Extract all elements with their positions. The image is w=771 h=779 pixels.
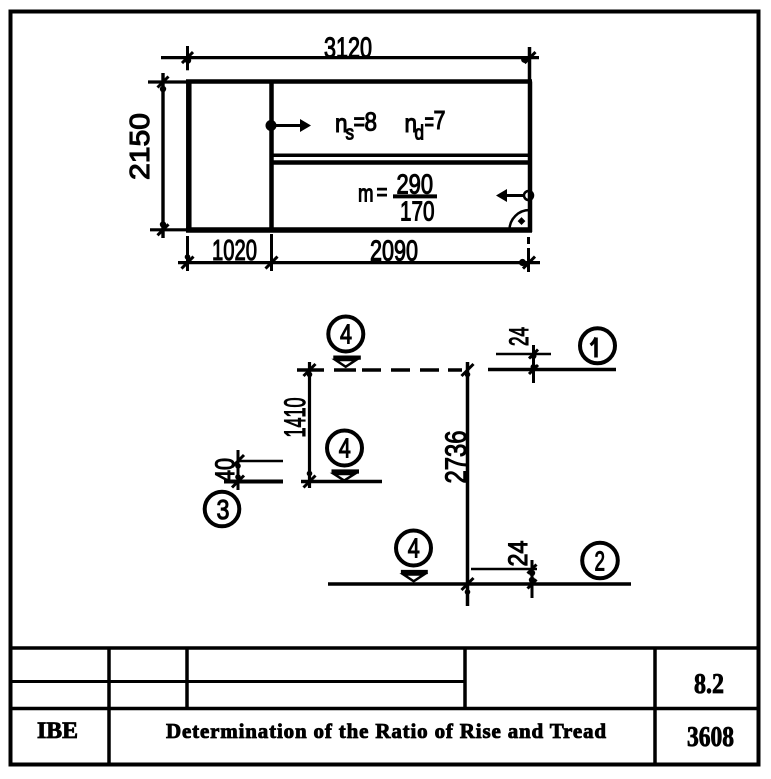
- svg-text:Determination of the Ratio of: Determination of the Ratio of Rise and T…: [166, 719, 606, 743]
- svg-text:2: 2: [595, 546, 606, 577]
- svg-text:8: 8: [365, 107, 378, 137]
- svg-text:24: 24: [503, 541, 533, 567]
- svg-text:2150: 2150: [124, 113, 155, 180]
- svg-text:170: 170: [400, 196, 435, 227]
- svg-text:=: =: [377, 179, 388, 206]
- svg-text:4: 4: [340, 319, 352, 350]
- svg-text:24: 24: [504, 327, 534, 346]
- svg-text:3: 3: [217, 494, 230, 525]
- svg-text:40: 40: [210, 458, 240, 482]
- svg-text:3120: 3120: [324, 33, 372, 65]
- svg-text:8.2: 8.2: [694, 669, 724, 700]
- svg-text:IBE: IBE: [37, 718, 78, 743]
- svg-text:1020: 1020: [212, 235, 257, 267]
- svg-text:m: m: [358, 181, 374, 208]
- svg-text:d: d: [415, 123, 425, 145]
- svg-text:4: 4: [339, 433, 351, 464]
- svg-text:2090: 2090: [370, 236, 418, 268]
- svg-text:4: 4: [408, 533, 420, 564]
- svg-text:2736: 2736: [440, 431, 473, 484]
- svg-text:=: =: [354, 107, 366, 137]
- svg-text:1410: 1410: [279, 398, 312, 438]
- svg-text:3608: 3608: [687, 722, 734, 753]
- svg-text:7: 7: [434, 105, 446, 135]
